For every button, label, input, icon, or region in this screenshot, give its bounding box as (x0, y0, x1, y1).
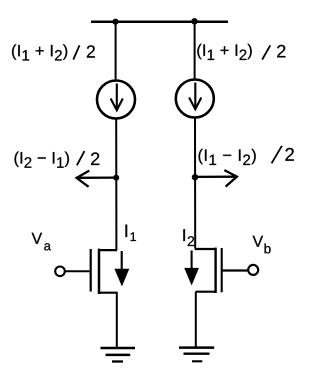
node C: left output junction dot (113, 175, 119, 181)
current source CS2 arrow (189, 83, 201, 110)
ground symbol (left) (101, 348, 136, 362)
wire: M2 source down to ground (195, 292, 197, 348)
wire: right current source down to M2 drain (194, 118, 196, 249)
transistor M1: source bottom horizontal (98, 292, 118, 294)
transistor M2: channel bar (214, 248, 216, 293)
label: I2 drain current (183, 229, 194, 246)
label: Va gate input (32, 233, 51, 251)
transistor M2: source bottom horizontal (196, 291, 216, 293)
transistor M2: gate wire (223, 269, 249, 271)
arrow: drain current I2 into M2 (184, 251, 199, 286)
node A: left rail junction dot (112, 19, 118, 25)
arrow: drain current I1 into M1 (114, 251, 129, 287)
label: (I1+I2)/2 at left current source (12, 44, 95, 60)
wire/arrow: left output current arrow pointing left (77, 171, 116, 187)
transistor M1: gate bar (90, 249, 92, 292)
current source CS1 arrow (111, 84, 123, 111)
label: (I1-I2)/2 at right output (199, 148, 294, 165)
ground symbol (right) (179, 348, 214, 362)
wire/arrow: right output current arrow pointing right (195, 170, 237, 187)
transistor M1: gate terminal circle (55, 267, 65, 277)
label: Vb gate input (253, 236, 271, 254)
transistor M1: channel bar (98, 249, 101, 294)
transistor M2: drain top horizontal (195, 248, 217, 250)
wire: M1 source down to ground (116, 293, 118, 348)
label: (I1+I2)/2 at right current source (197, 44, 285, 60)
transistor M1: drain top horizontal (98, 249, 117, 251)
wire: rail down to left current source (115, 22, 117, 81)
current source CS1 (left) circle (97, 81, 135, 119)
wire: rail down to right current source (194, 21, 196, 79)
label: I1 drain current (125, 225, 135, 241)
node D: right output junction dot (192, 174, 198, 180)
node B: right rail junction dot (191, 18, 197, 24)
transistor M2: gate terminal circle (248, 265, 258, 275)
wire: top supply rail (91, 20, 228, 23)
wire: left current source down to M1 drain (115, 119, 117, 251)
transistor M2: gate bar (221, 248, 223, 292)
current source CS2 (right) circle (176, 80, 214, 118)
transistor M1: gate wire (65, 270, 90, 272)
label: (I2-I1)/2 at left output (15, 152, 100, 168)
